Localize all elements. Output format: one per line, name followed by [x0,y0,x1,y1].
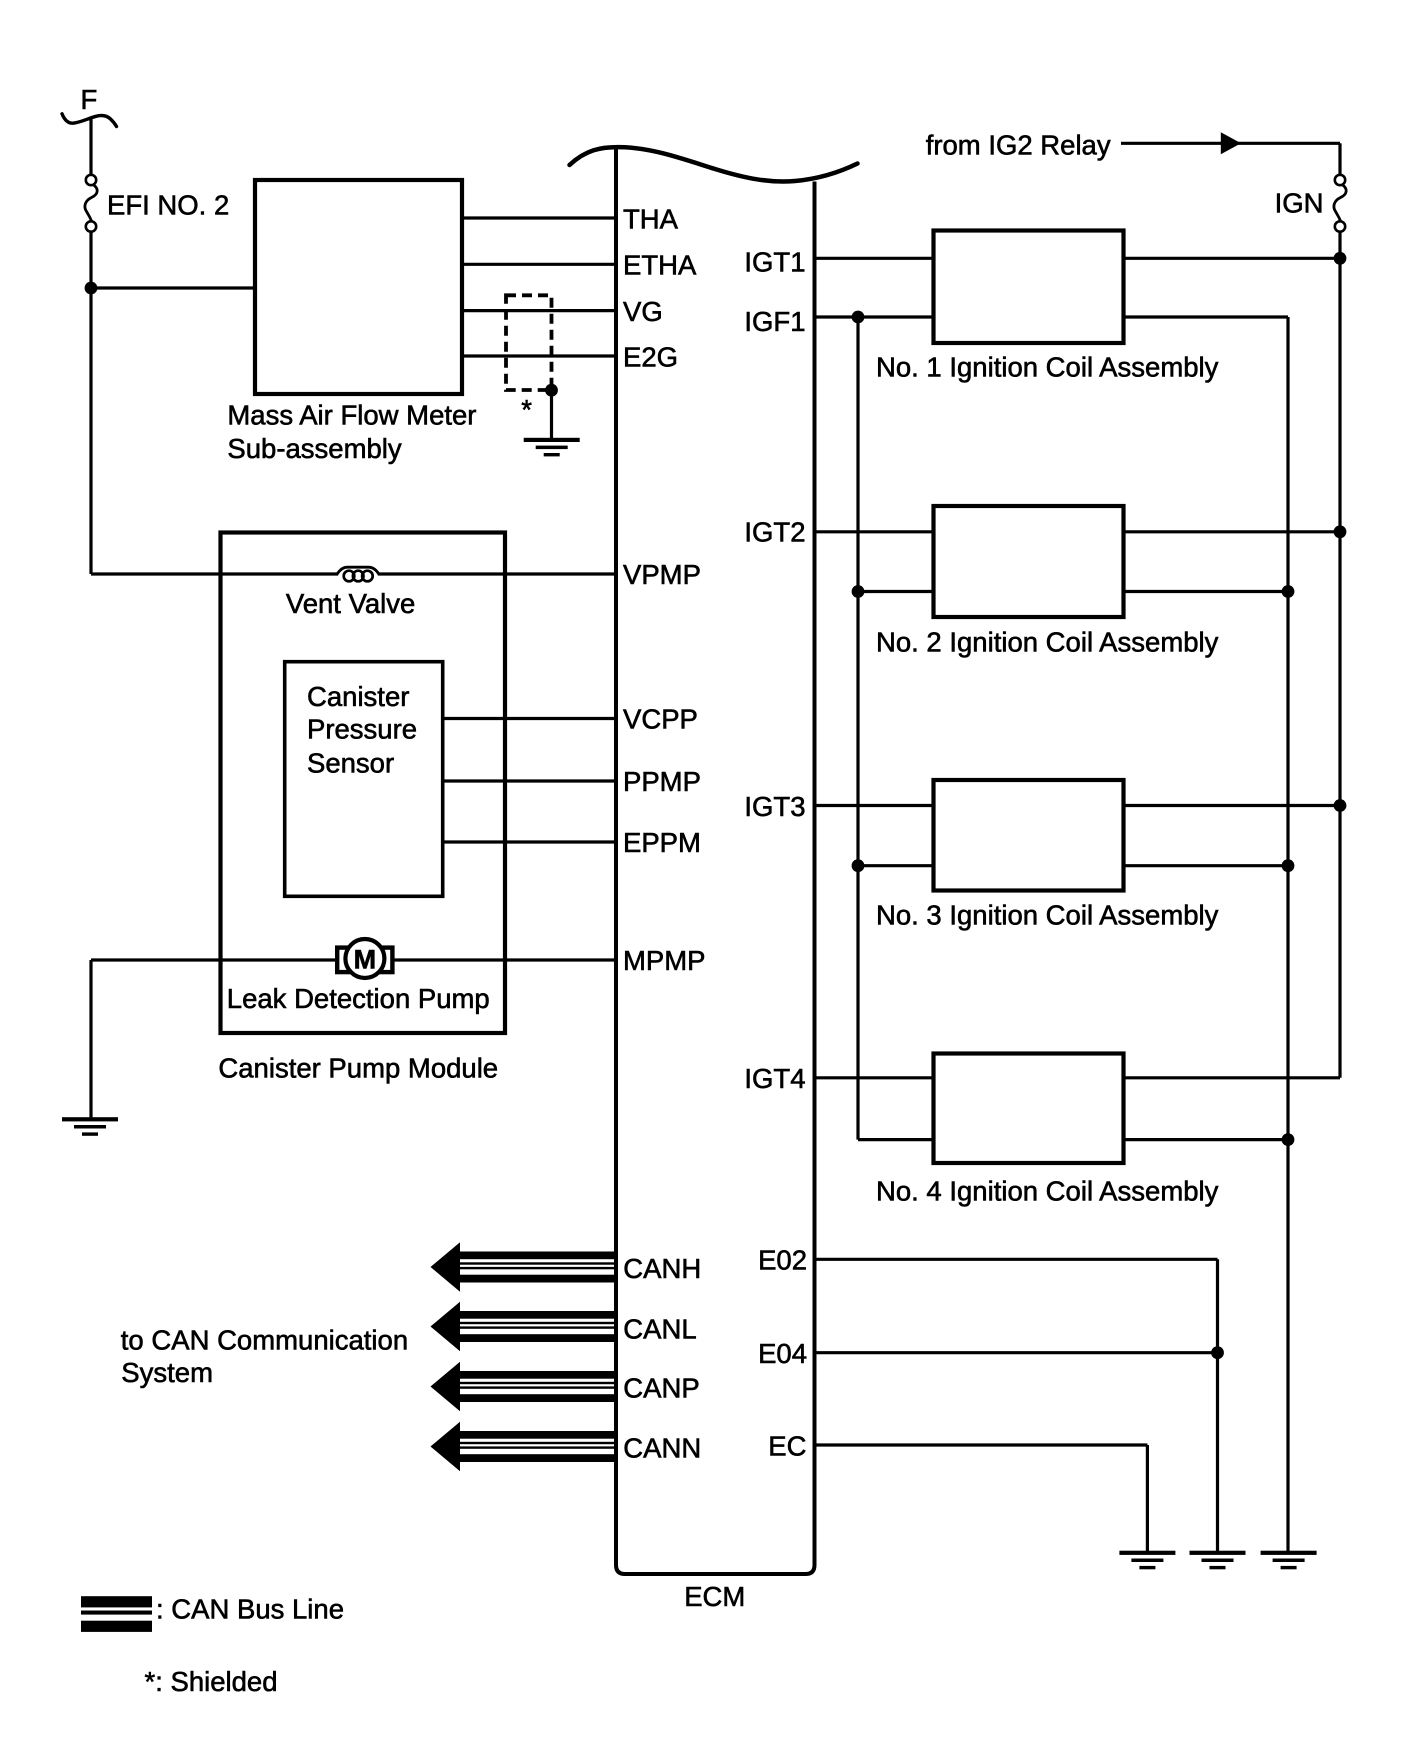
svg-text:Vent Valve: Vent Valve [286,588,415,619]
svg-text:Pressure: Pressure [307,714,417,745]
svg-text:THA: THA [623,203,679,234]
svg-text:VG: VG [623,296,663,327]
svg-text:No. 1 Ignition Coil Assembly: No. 1 Ignition Coil Assembly [876,352,1219,383]
svg-text:ETHA: ETHA [623,250,697,281]
svg-text:IGT2: IGT2 [744,517,805,548]
svg-text:Canister: Canister [307,681,409,712]
svg-text:IGT4: IGT4 [744,1063,805,1094]
svg-text:CANP: CANP [623,1373,699,1404]
svg-text:System: System [121,1357,213,1388]
svg-text:CANL: CANL [623,1314,696,1345]
svg-text:CANN: CANN [623,1432,701,1463]
svg-text:VCPP: VCPP [623,704,698,735]
svg-text:E2G: E2G [623,341,678,372]
svg-text:*: Shielded: *: Shielded [145,1666,278,1697]
svg-text:Mass Air Flow Meter: Mass Air Flow Meter [227,400,476,431]
svg-text:: CAN Bus Line: : CAN Bus Line [156,1594,344,1625]
svg-text:Sensor: Sensor [307,748,394,779]
svg-text:Leak Detection Pump: Leak Detection Pump [227,983,490,1014]
svg-text:Sub-assembly: Sub-assembly [227,433,401,464]
svg-text:*: * [521,394,532,425]
svg-text:E04: E04 [758,1338,807,1369]
svg-text:EC: EC [768,1430,806,1461]
svg-text:MPMP: MPMP [623,945,706,976]
svg-text:IGN: IGN [1275,187,1324,218]
svg-text:IGT1: IGT1 [744,246,805,277]
svg-text:M: M [354,944,377,974]
svg-text:F: F [81,84,98,115]
svg-text:PPMP: PPMP [623,766,701,797]
svg-text:IGF1: IGF1 [744,306,805,337]
svg-text:from IG2 Relay: from IG2 Relay [926,129,1111,160]
svg-text:CANH: CANH [623,1253,701,1284]
svg-text:No. 2 Ignition Coil Assembly: No. 2 Ignition Coil Assembly [876,627,1219,658]
svg-text:E02: E02 [758,1245,807,1276]
svg-text:EPPM: EPPM [623,827,701,858]
svg-text:ECM: ECM [684,1581,745,1612]
svg-text:Canister Pump Module: Canister Pump Module [218,1052,498,1083]
svg-text:No. 3 Ignition Coil Assembly: No. 3 Ignition Coil Assembly [876,900,1219,931]
svg-text:No. 4 Ignition Coil Assembly: No. 4 Ignition Coil Assembly [876,1176,1219,1207]
svg-text:EFI NO. 2: EFI NO. 2 [107,190,229,221]
svg-text:IGT3: IGT3 [744,791,805,822]
svg-text:VPMP: VPMP [623,559,701,590]
svg-text:to CAN Communication: to CAN Communication [121,1324,408,1355]
